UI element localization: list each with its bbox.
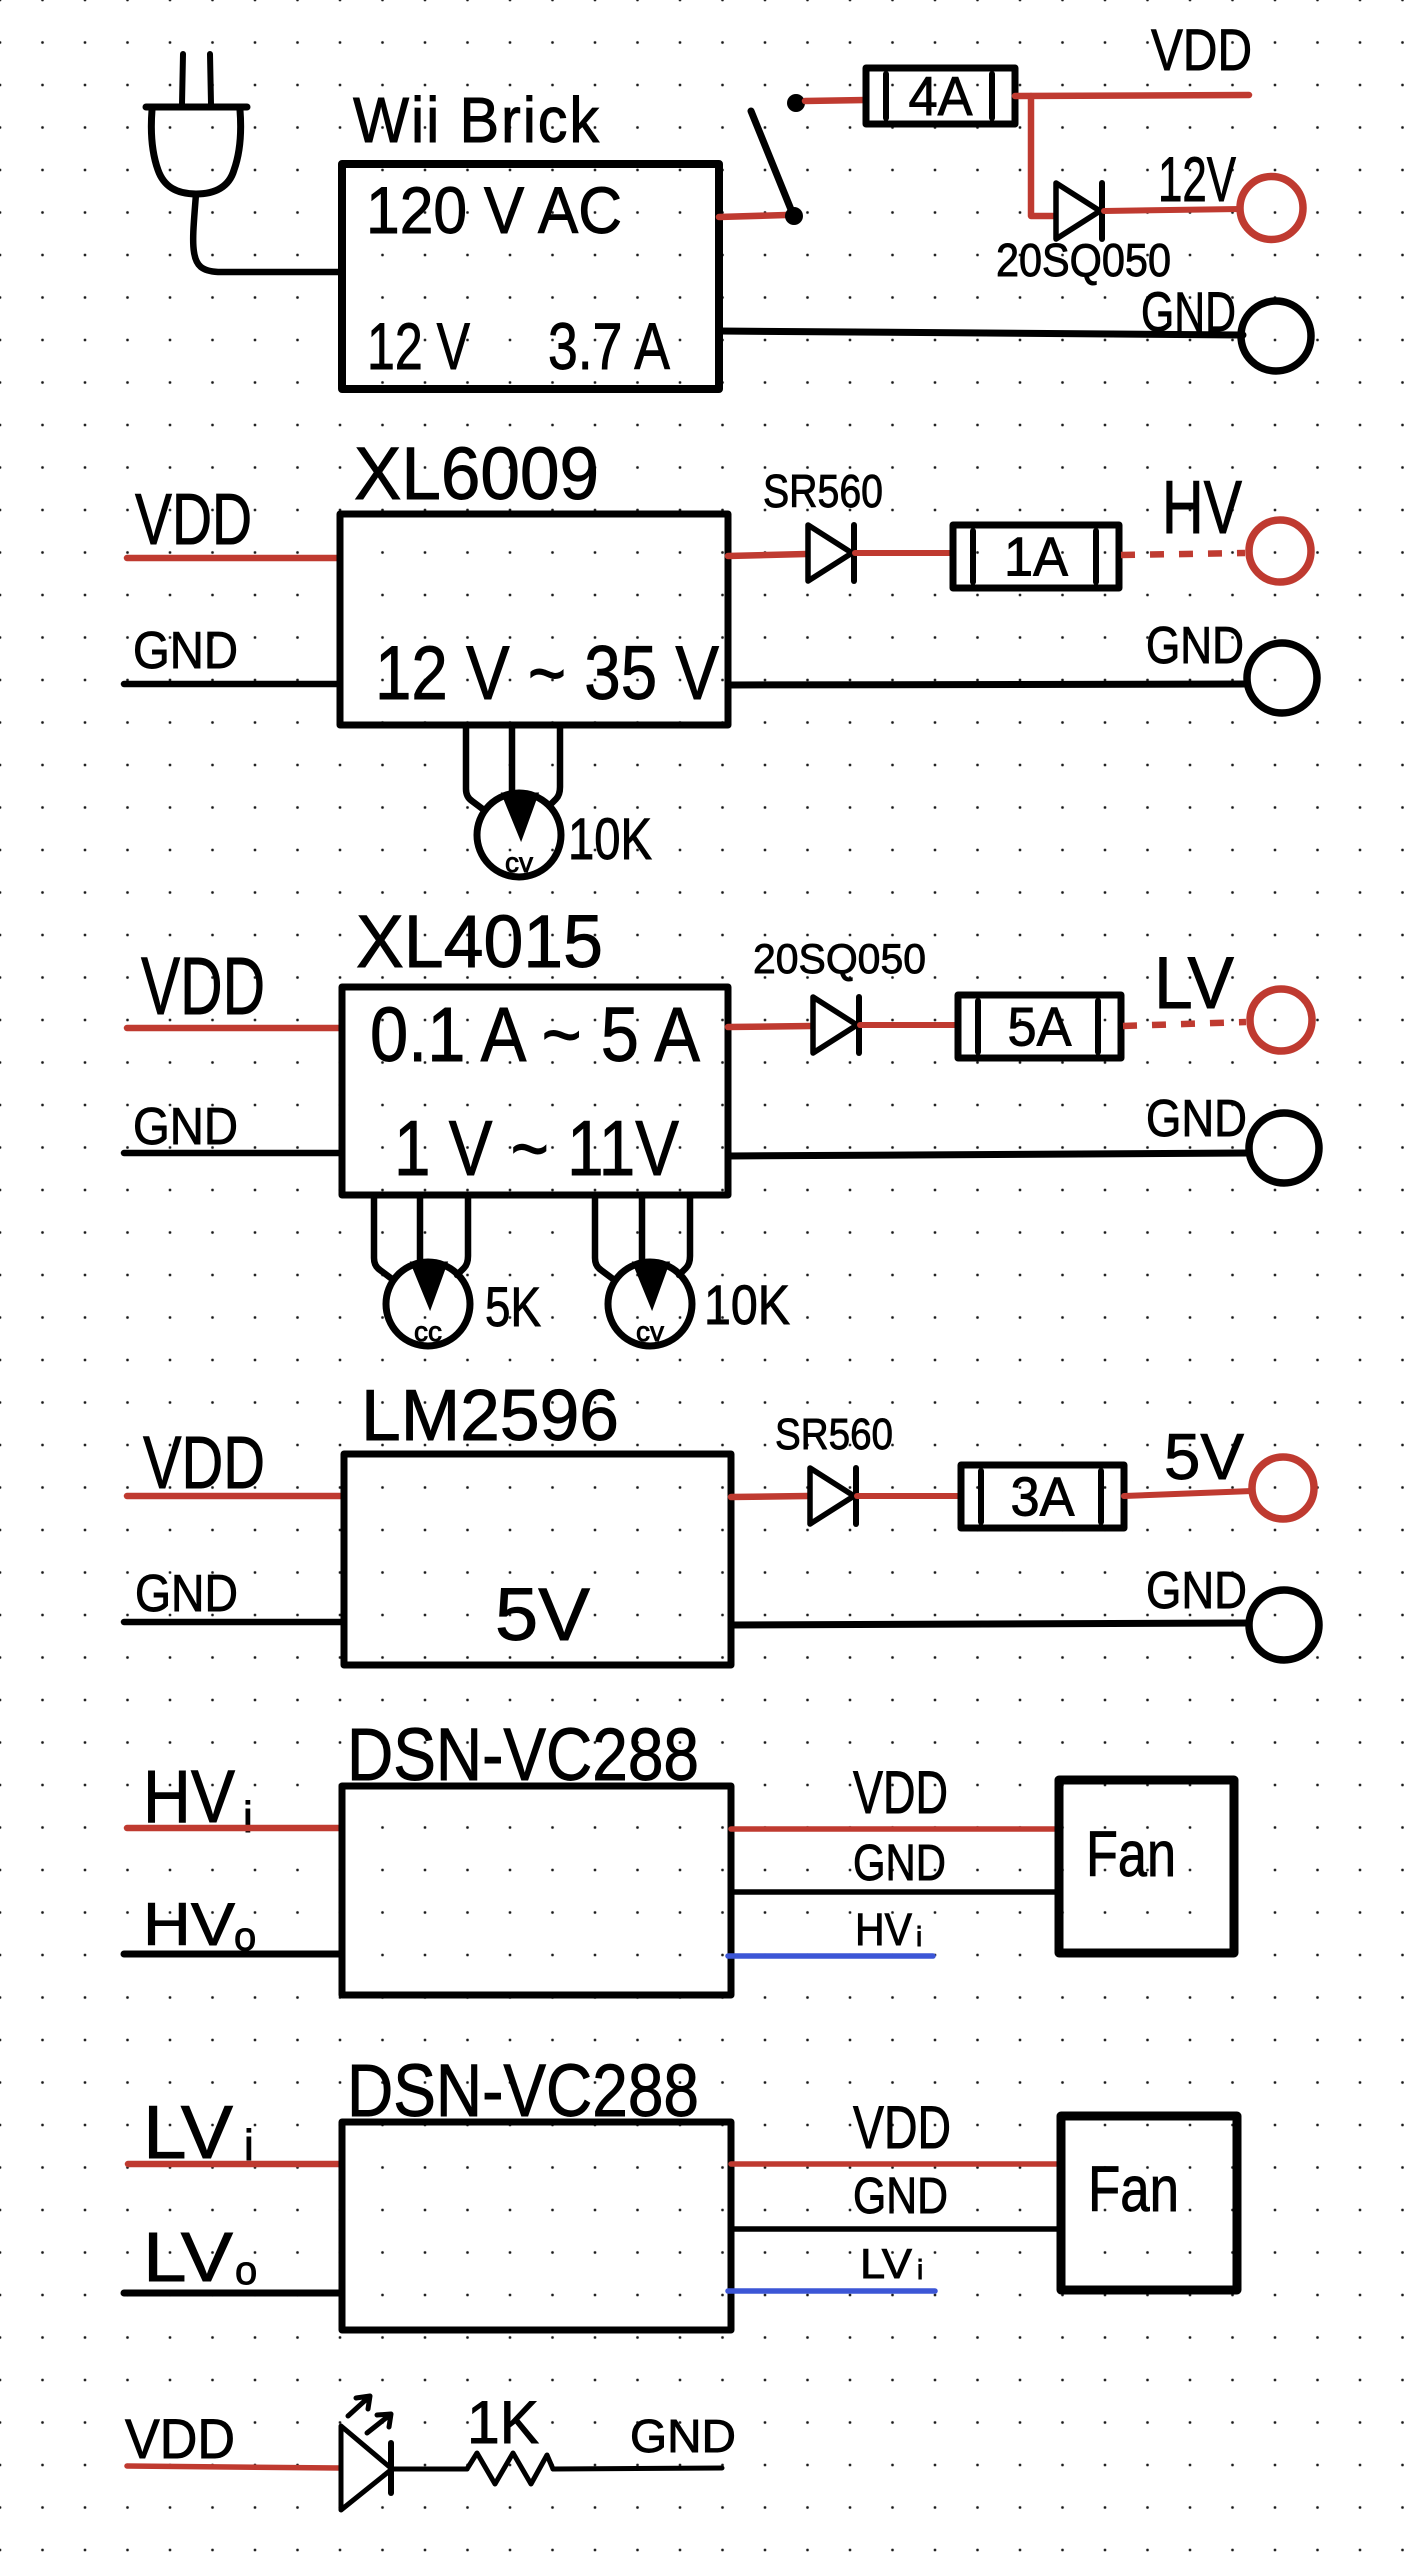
svg-text:3.7 A: 3.7 A: [548, 309, 670, 383]
wire (LED to resistor R1): [392, 2467, 467, 2472]
svg-text:20SQ050: 20SQ050: [996, 234, 1171, 286]
svg-text:GND: GND: [853, 2167, 948, 2224]
wire (red, LM2596 output to diode D4): [731, 1496, 808, 1497]
svg-text:o: o: [235, 2249, 257, 2293]
wire (red VDD input to XL4015): [127, 1025, 342, 1032]
svg-text:LV: LV: [1154, 943, 1234, 1024]
potentiometer RV1 CV 10K (on XL6009): [466, 725, 561, 878]
wire (red, D2 to fuse F2): [855, 550, 953, 556]
svg-text:5V: 5V: [1164, 1420, 1245, 1493]
fan FN1: [1059, 1780, 1234, 1953]
svg-text:5K: 5K: [485, 1275, 541, 1338]
wire (red, F4 to 5V terminal): [1124, 1491, 1252, 1496]
node LVi (meter input label): [143, 2090, 254, 2174]
svg-text:GND: GND: [1146, 1090, 1247, 1148]
svg-text:VDD: VDD: [143, 1421, 265, 1504]
svg-text:GND: GND: [1146, 1562, 1247, 1620]
fuse F3 5A: [958, 995, 1121, 1058]
svg-text:5A: 5A: [1008, 996, 1072, 1058]
node LVo (meter output label): [143, 2218, 257, 2296]
panel meter U4 DSN-VC288 (HV): [342, 1713, 731, 1995]
fuse F4 3A: [961, 1465, 1124, 1528]
label HVi (sense line): [855, 1904, 922, 1955]
wire (red VDD from meter to fan FN2): [731, 2161, 1061, 2167]
wire (LVo to meter U5): [124, 2290, 342, 2297]
wire (GND from meter to fan FN1): [731, 1889, 1059, 1895]
svg-text:LV: LV: [860, 2240, 912, 2287]
wire (dashed red, F2 to HV terminal): [1121, 553, 1245, 555]
wire (red, XL4015 output to diode D3): [728, 1026, 811, 1027]
svg-text:HV: HV: [143, 1891, 235, 1958]
svg-text:12 V ~ 35 V: 12 V ~ 35 V: [375, 631, 719, 716]
wire (GND through to right GND terminal): [728, 684, 1247, 685]
terminal 12V (binding post, red): [1158, 145, 1303, 240]
wire (red, VDD branch down to diode D1): [1031, 96, 1053, 216]
svg-text:LV: LV: [143, 2218, 233, 2296]
wire (red VDD from meter to fan FN1): [731, 1826, 1059, 1832]
svg-text:i: i: [917, 2254, 923, 2285]
svg-text:VDD: VDD: [141, 941, 265, 1032]
svg-text:cv: cv: [505, 847, 533, 878]
terminal LV (binding post, red): [1154, 943, 1312, 1051]
svg-text:120 V AC: 120 V AC: [366, 173, 622, 247]
potentiometer RV3 CV 10K (on XL4015): [595, 1195, 692, 1347]
wire (red, D3 to fuse F3): [860, 1022, 958, 1028]
wire (red VDD input to LM2596): [127, 1493, 344, 1500]
fuse F1 4A: [866, 65, 1015, 127]
wire (red HVi to meter U4): [127, 1825, 342, 1832]
svg-text:4A: 4A: [909, 65, 973, 127]
panel meter U5 DSN-VC288 (LV): [342, 2049, 731, 2330]
svg-text:i: i: [243, 1793, 253, 1842]
svg-text:1 V ~ 11V: 1 V ~ 11V: [394, 1104, 679, 1192]
resistor R1 1K: [467, 2389, 553, 2484]
wire (blue HVi sense line): [728, 1953, 933, 1959]
wire (red, D4 to fuse F4): [857, 1493, 961, 1499]
node HVi (meter input label): [143, 1755, 253, 1842]
svg-text:Wii Brick: Wii Brick: [353, 84, 601, 156]
terminal GND (XL4015 output, black): [1146, 1090, 1319, 1183]
svg-text:VDD: VDD: [125, 2407, 235, 2470]
boost converter U1 XL6009 12V~35V: [340, 432, 728, 725]
wire (red VDD to LED D5): [127, 2466, 339, 2468]
wire (dashed red, F3 to LV terminal): [1123, 1022, 1246, 1026]
svg-text:cc: cc: [414, 1316, 442, 1347]
svg-text:3A: 3A: [1011, 1466, 1075, 1528]
svg-text:GND: GND: [135, 1565, 238, 1623]
wire (red, switch to fuse F1): [805, 100, 866, 101]
wire (red, fuse F1 to VDD net): [1015, 95, 1249, 96]
wire (GND from brick to GND terminal): [719, 331, 1243, 335]
wire (GND input to XL4015): [124, 1150, 342, 1157]
wire (GND through to right GND terminal): [731, 1623, 1249, 1625]
power brick PS1 "Wii Brick" 120V AC -> 12V 3.7A: [342, 84, 719, 389]
svg-text:HV: HV: [855, 1904, 912, 1955]
svg-text:12 V: 12 V: [367, 309, 470, 383]
svg-text:10K: 10K: [704, 1273, 790, 1336]
wire (GND from meter to fan FN2): [731, 2226, 1061, 2232]
svg-text:VDD: VDD: [1151, 18, 1252, 83]
svg-text:GND: GND: [853, 1834, 946, 1891]
terminal GND (XL6009 output, black): [1146, 617, 1317, 713]
svg-text:1A: 1A: [1004, 526, 1068, 588]
svg-text:20SQ050: 20SQ050: [753, 935, 926, 982]
svg-text:12V: 12V: [1158, 145, 1236, 215]
terminal 5V (binding post, red): [1164, 1420, 1314, 1519]
switch S1 (SPST, open): [751, 94, 805, 225]
potentiometer RV2 CC 5K (on XL4015): [374, 1195, 470, 1347]
svg-text:LM2596: LM2596: [361, 1376, 619, 1456]
LED D5 (power indicator): [341, 2396, 392, 2510]
svg-text:VDD: VDD: [853, 2094, 951, 2161]
fuse F2 1A: [953, 525, 1119, 588]
svg-text:VDD: VDD: [135, 480, 252, 560]
wire (HVo to meter U4): [124, 1951, 342, 1958]
wire (red VDD input to XL6009): [127, 555, 340, 562]
svg-text:Fan: Fan: [1088, 2153, 1179, 2225]
terminal HV (binding post, red): [1162, 465, 1311, 582]
buck converter U3 LM2596 5V: [344, 1376, 731, 1665]
svg-text:HV: HV: [1162, 465, 1242, 549]
wire (GND input to XL6009): [124, 681, 340, 688]
label LVi (sense line): [860, 2240, 923, 2287]
svg-text:GND: GND: [133, 1098, 238, 1156]
svg-text:5V: 5V: [495, 1573, 591, 1656]
svg-text:VDD: VDD: [853, 1759, 948, 1826]
wire (AC cord from plug to brick): [193, 194, 342, 272]
wire (GND through to right GND terminal): [728, 1153, 1249, 1156]
svg-text:GND: GND: [1141, 280, 1236, 343]
node HVo (meter output label): [143, 1891, 256, 1959]
svg-text:Fan: Fan: [1086, 1818, 1176, 1890]
svg-text:cv: cv: [636, 1316, 664, 1347]
wire (blue LVi sense line): [728, 2288, 935, 2294]
svg-text:0.1 A ~ 5 A: 0.1 A ~ 5 A: [370, 992, 701, 1078]
wire (red, D1 to 12V terminal): [1104, 209, 1240, 211]
svg-text:XL6009: XL6009: [354, 432, 599, 515]
diode D1 20SQ050: [1056, 183, 1102, 239]
wire (red, brick output to switch): [719, 215, 786, 217]
wire (resistor R1 to GND): [553, 2468, 722, 2469]
wire (red, XL6009 output to diode D2): [728, 554, 806, 556]
svg-text:XL4015: XL4015: [356, 900, 603, 983]
svg-text:i: i: [916, 1921, 922, 1952]
svg-text:SR560: SR560: [775, 1410, 893, 1459]
svg-text:GND: GND: [1146, 617, 1244, 675]
terminal GND (binding post, black): [1141, 280, 1311, 371]
svg-text:10K: 10K: [568, 807, 652, 872]
svg-text:GND: GND: [630, 2410, 736, 2462]
wire (GND input to LM2596): [124, 1619, 344, 1626]
wire (red LVi to meter U5): [128, 2161, 342, 2168]
svg-text:GND: GND: [133, 622, 238, 680]
terminal GND (LM2596 output, black): [1146, 1562, 1319, 1660]
buck converter U2 XL4015 0.1A~5A 1V~11V: [342, 900, 728, 1195]
svg-text:1K: 1K: [467, 2389, 539, 2456]
fan FN2: [1061, 2116, 1237, 2290]
AC wall plug J1: [146, 54, 247, 194]
svg-text:SR560: SR560: [763, 465, 883, 517]
